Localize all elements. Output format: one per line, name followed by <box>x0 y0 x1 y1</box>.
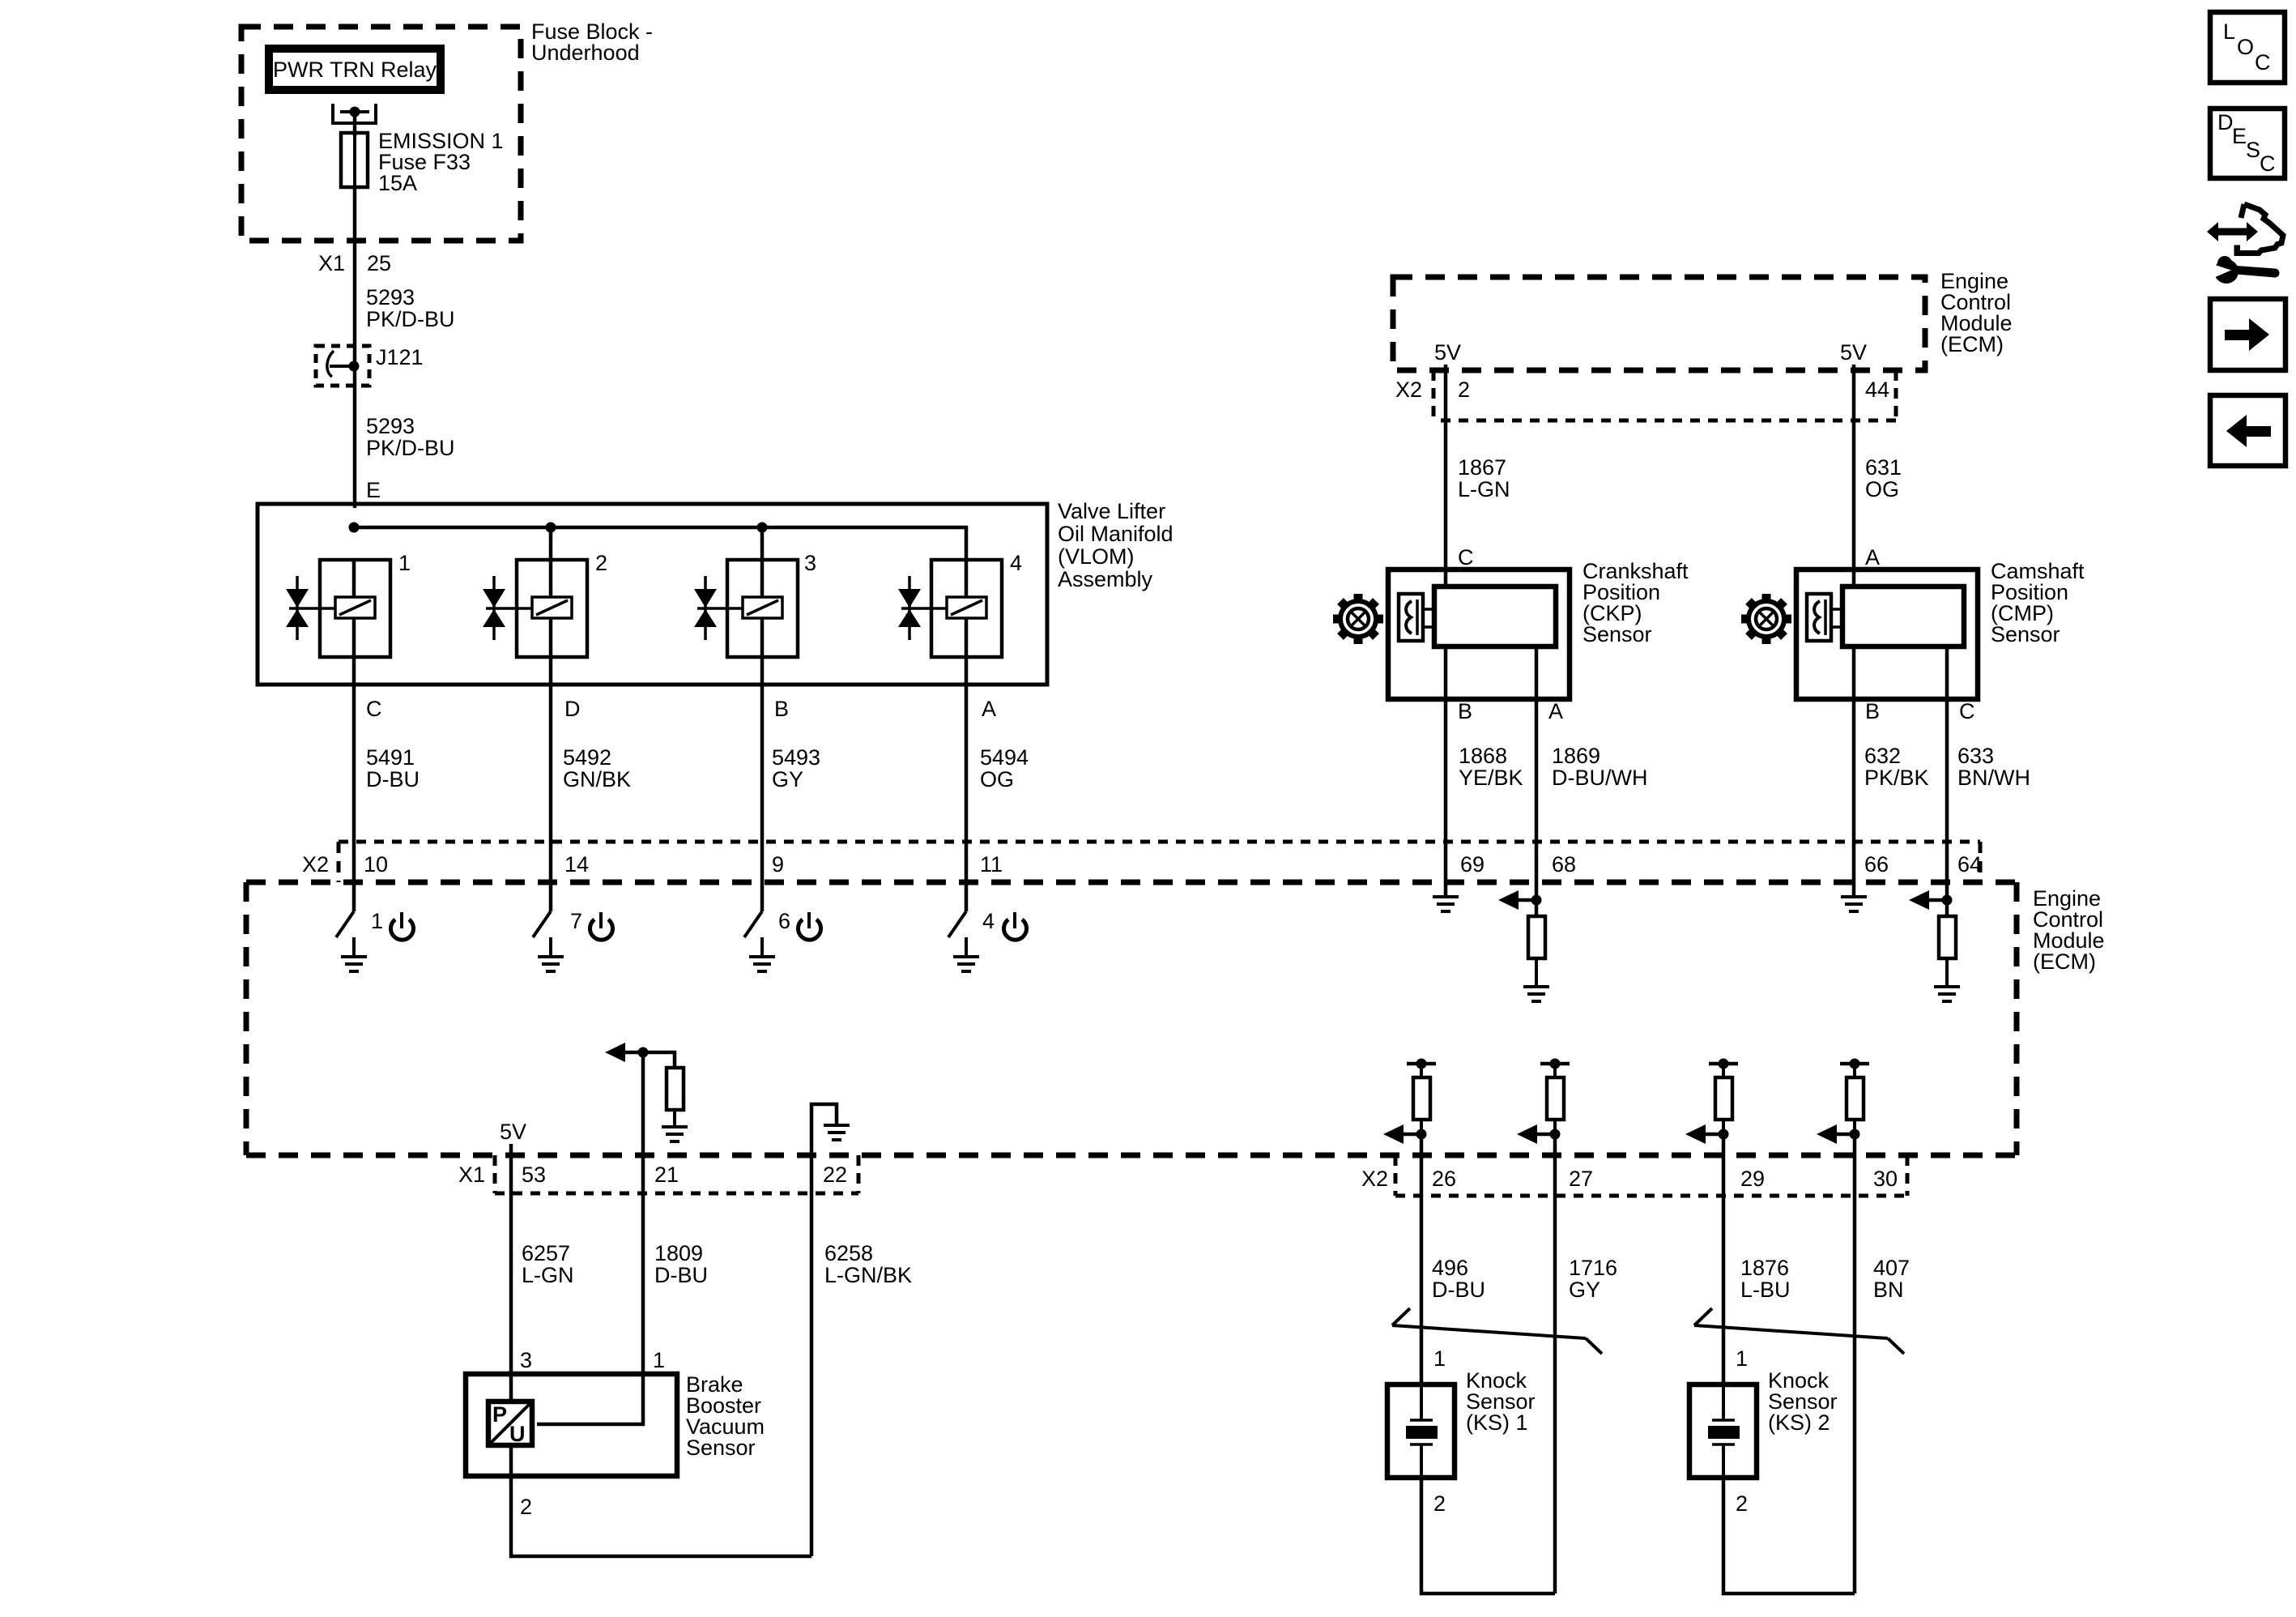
fuse block - underhood dashed box <box>241 27 521 241</box>
pin B of VLOM <box>774 697 789 721</box>
ECM top dashed box (sensor feed) <box>1393 277 1925 370</box>
svg-text:4: 4 <box>1010 551 1022 575</box>
label: Crankshaft Position (CKP) Sensor <box>1582 559 1689 646</box>
wire label 1869 D-BU/WH <box>1552 744 1647 790</box>
svg-text:YE/BK: YE/BK <box>1459 766 1523 790</box>
wire A to ECM pin 11 <box>965 685 969 885</box>
resistor (x=1920) <box>1547 1077 1564 1134</box>
svg-text:D-BU: D-BU <box>366 767 420 791</box>
svg-text:Sensor: Sensor <box>686 1436 756 1460</box>
knock sensor KS1 box <box>1387 1384 1455 1478</box>
svg-text:PK/D-BU: PK/D-BU <box>366 436 455 460</box>
svg-text:B: B <box>1458 699 1472 723</box>
ECM main dashed box <box>246 882 2017 1155</box>
ECM X1 connector row (brake booster) <box>495 1155 858 1193</box>
signal arrow (x=1920) <box>1517 1124 1555 1144</box>
wire D to ECM pin 14 <box>549 685 553 885</box>
wire relay to fuse <box>353 112 357 136</box>
ground (driver 7) <box>538 957 564 971</box>
svg-text:2: 2 <box>520 1495 532 1519</box>
signal arrow (x=2128) <box>1685 1124 1723 1144</box>
valve symbol 2 <box>483 576 505 640</box>
valve symbol 4 <box>898 576 921 640</box>
power icon 7 <box>590 912 613 940</box>
wire to connector (x=1920) <box>1553 1134 1557 1196</box>
wire bus drop 3 <box>760 527 765 560</box>
ground (driver 6) <box>749 957 775 971</box>
splice J121 <box>316 346 369 386</box>
svg-text:A: A <box>1865 545 1880 570</box>
pin X1 25 <box>318 251 391 275</box>
svg-text:OG: OG <box>980 767 1014 791</box>
ECM X2 connector row (top) <box>1433 370 1896 420</box>
pin A of VLOM <box>982 697 996 721</box>
svg-text:PWR TRN Relay: PWR TRN Relay <box>273 58 437 82</box>
solenoid 2 <box>486 560 587 685</box>
svg-text:2: 2 <box>595 551 607 575</box>
DESC legend box <box>2210 109 2285 178</box>
label: EMISSION 1 Fuse F33 15A <box>378 129 504 195</box>
svg-text:D-BU: D-BU <box>1432 1278 1485 1302</box>
svg-text:1876: 1876 <box>1740 1256 1789 1280</box>
ECM pin 68 internal arrow <box>1498 885 1536 910</box>
pin C label (CMP) <box>1959 699 1975 723</box>
svg-text:(VLOM): (VLOM) <box>1058 544 1135 569</box>
label: Engine Control Module (ECM) right side <box>2033 886 2105 974</box>
svg-text:21: 21 <box>654 1163 679 1187</box>
signal arrow (x=2290) <box>1817 1124 1855 1144</box>
junction dot at relay output <box>350 107 360 117</box>
label: solenoid 2 <box>595 551 607 575</box>
power icon 1 <box>391 912 414 940</box>
P/U transducer symbol <box>488 1402 532 1446</box>
signal arrow (x=1755) <box>1383 1124 1421 1144</box>
wire label 5491 D-BU <box>366 745 420 791</box>
ECM internal bias (pin net x=2128) <box>1709 1064 1738 1077</box>
svg-text:B: B <box>774 697 789 721</box>
svg-text:(ECM): (ECM) <box>1940 332 2004 356</box>
svg-text:BN: BN <box>1873 1278 1904 1302</box>
ground (pin 68 resistor) <box>1523 987 1549 1001</box>
svg-text:J121: J121 <box>376 345 424 369</box>
KS1 piezo element <box>1406 1384 1438 1478</box>
svg-text:GY: GY <box>772 767 803 791</box>
wire label 632 PK/BK <box>1864 744 1929 790</box>
svg-text:66: 66 <box>1864 852 1889 877</box>
pin 1 label <box>653 1348 665 1372</box>
svg-text:(ECM): (ECM) <box>2033 949 2096 974</box>
wire 496 pin26 to KS1 pin 1 <box>1420 1196 1424 1384</box>
KS2 piezo element <box>1708 1384 1740 1478</box>
driver switch 6 <box>744 885 762 957</box>
svg-text:A: A <box>982 697 996 721</box>
svg-text:1868: 1868 <box>1459 744 1507 768</box>
svg-text:O: O <box>2237 35 2254 59</box>
pin 2 label (KS1) <box>1433 1491 1446 1516</box>
pin D of VLOM <box>564 697 581 721</box>
junction dot top (x=1920) <box>1550 1059 1561 1069</box>
wire label 1809 D-BU <box>654 1241 708 1287</box>
svg-text:D-BU: D-BU <box>654 1263 708 1287</box>
CMP pickup element <box>1807 594 1842 641</box>
label: solenoid 4 <box>1010 551 1022 575</box>
svg-text:S: S <box>2246 138 2260 162</box>
pin 2 label (KS2) <box>1736 1491 1748 1516</box>
svg-text:PK/BK: PK/BK <box>1864 766 1929 790</box>
svg-text:1: 1 <box>653 1348 665 1372</box>
ECM internal bias (pin net x=1755) <box>1407 1064 1436 1077</box>
svg-text:496: 496 <box>1432 1256 1468 1280</box>
svg-text:C: C <box>1959 699 1975 723</box>
wire 1867 pin2 to CKP pin C <box>1444 365 1448 587</box>
svg-text:53: 53 <box>522 1163 546 1187</box>
pin 66 <box>1864 852 1889 877</box>
wire bus drop 2 <box>549 527 553 560</box>
reluctor gear icon (CKP) <box>1333 594 1383 644</box>
wire label 6257 L-GN <box>522 1241 574 1287</box>
junction dot top (x=2128) <box>1719 1059 1729 1069</box>
pin 53 <box>522 1163 546 1187</box>
junction dot top (x=2290) <box>1850 1059 1860 1069</box>
svg-text:5293: 5293 <box>366 285 415 309</box>
svg-text:44: 44 <box>1865 378 1889 402</box>
wire label 631 OG <box>1865 455 1902 501</box>
CMP sensor outer box <box>1796 570 1978 699</box>
pin 29 <box>1740 1167 1765 1191</box>
svg-text:5V: 5V <box>1434 340 1461 365</box>
valve symbol 1 <box>286 576 309 640</box>
CKP sensor inner body <box>1434 587 1556 646</box>
wire label 5493 GY <box>772 745 820 791</box>
junction dot pin21 net <box>638 1047 649 1058</box>
wire CKP pin B to ECM pin 69 <box>1444 646 1448 885</box>
svg-text:C: C <box>1458 545 1474 570</box>
solenoid 3 <box>697 560 798 685</box>
junction dot pin 64 <box>1942 895 1953 906</box>
relay PWR TRN Relay <box>269 49 441 90</box>
pin B label (CMP) <box>1865 699 1880 723</box>
svg-text:7: 7 <box>570 909 582 933</box>
wire label 1868 YE/BK <box>1459 744 1523 790</box>
ECM pin 64 internal arrow <box>1909 885 1947 910</box>
power icon 6 <box>799 912 821 940</box>
svg-text:1: 1 <box>1433 1346 1446 1371</box>
svg-text:5293: 5293 <box>366 414 415 438</box>
pin 64 <box>1957 852 1982 877</box>
svg-text:14: 14 <box>564 852 589 877</box>
svg-text:(KS) 1: (KS) 1 <box>1466 1410 1528 1435</box>
pin B label (CKP) <box>1458 699 1472 723</box>
svg-text:X2: X2 <box>302 852 329 877</box>
pin 21 <box>654 1163 679 1187</box>
svg-text:69: 69 <box>1460 852 1485 877</box>
svg-text:5491: 5491 <box>366 745 415 770</box>
svg-text:P: P <box>492 1402 507 1427</box>
ECM X2 connector row (left) <box>339 842 1980 882</box>
svg-text:Valve Lifter: Valve Lifter <box>1058 499 1165 523</box>
svg-text:B: B <box>1865 699 1880 723</box>
svg-text:PK/D-BU: PK/D-BU <box>366 307 455 331</box>
net 5V (CKP) <box>1434 340 1461 365</box>
twisted pair symbol KS2 <box>1694 1308 1904 1354</box>
svg-text:C: C <box>366 697 382 721</box>
svg-text:L-GN/BK: L-GN/BK <box>824 1263 912 1287</box>
pin 10 <box>364 852 388 877</box>
wire KS1 pin 2 loop to pin 27 <box>1421 1478 1555 1594</box>
pin 27 <box>1569 1167 1593 1191</box>
label: Brake Booster Vacuum Sensor <box>686 1372 765 1460</box>
svg-text:D-BU/WH: D-BU/WH <box>1552 766 1647 790</box>
svg-text:Assembly: Assembly <box>1058 567 1153 591</box>
wire sensor pin 2 loop to pin 22 <box>511 1445 811 1556</box>
wire fuse to X1 pin 25 <box>353 187 357 508</box>
svg-text:633: 633 <box>1957 744 1994 768</box>
pin 68 <box>1552 852 1576 877</box>
pin 9 <box>772 852 784 877</box>
ground (ECM pin 66) <box>1841 885 1867 911</box>
label: solenoid 1 <box>398 551 411 575</box>
junction dot arrow (x=1755) <box>1416 1129 1427 1140</box>
wire 631 pin44 to CMP pin A <box>1852 365 1856 587</box>
ECM X2 connector row (knock sensors) <box>1395 1155 1907 1196</box>
pin 30 <box>1873 1167 1898 1191</box>
svg-text:22: 22 <box>823 1163 847 1187</box>
pin 1 label (KS1) <box>1433 1346 1446 1371</box>
svg-text:68: 68 <box>1552 852 1576 877</box>
svg-text:Underhood: Underhood <box>531 41 640 65</box>
wire CMP pin C to ECM pin 64 <box>1945 646 1949 885</box>
wire CKP pin A to ECM pin 68 <box>1535 646 1539 885</box>
valve symbol 3 <box>694 576 717 640</box>
node E <box>366 478 381 502</box>
pin C of VLOM <box>366 697 382 721</box>
label: X2 connector knock <box>1361 1167 1388 1191</box>
svg-text:X2: X2 <box>1395 378 1422 402</box>
ECM internal bias (pin net x=2290) <box>1840 1064 1869 1077</box>
svg-text:GN/BK: GN/BK <box>563 767 631 791</box>
svg-text:Oil Manifold: Oil Manifold <box>1058 522 1174 546</box>
pin A label (CMP) <box>1865 545 1880 570</box>
svg-text:4: 4 <box>982 909 995 933</box>
svg-text:5V: 5V <box>500 1120 526 1144</box>
junction dot bus 2 <box>546 523 556 533</box>
net 5V (brake booster ref) <box>500 1120 526 1144</box>
svg-text:29: 29 <box>1740 1167 1765 1191</box>
wire 1716 pin27 down <box>1553 1196 1557 1594</box>
svg-text:1: 1 <box>1736 1346 1748 1371</box>
solenoid 4 <box>901 560 1002 685</box>
svg-text:5V: 5V <box>1840 340 1867 365</box>
svg-text:27: 27 <box>1569 1167 1593 1191</box>
label: Knock Sensor (KS) 1 <box>1466 1368 1536 1435</box>
wire to connector (x=2290) <box>1853 1134 1857 1196</box>
driver switch 1 <box>336 885 354 957</box>
junction dot arrow (x=2290) <box>1850 1129 1860 1140</box>
underhood service icon (car + arrows + wrench) <box>2207 204 2283 284</box>
svg-text:OG: OG <box>1865 477 1899 501</box>
svg-text:5493: 5493 <box>772 745 820 770</box>
wire to connector (x=2128) <box>1722 1134 1726 1196</box>
junction dot bus 3 <box>757 523 768 533</box>
label: X2 connector top <box>1395 378 1422 402</box>
LOC legend box <box>2210 12 2285 83</box>
wire CMP pin B to ECM pin 66 <box>1852 646 1856 885</box>
wire B to ECM pin 9 <box>760 685 765 885</box>
svg-text:2: 2 <box>1736 1491 1748 1516</box>
svg-text:25: 25 <box>367 251 391 275</box>
resistor (x=2290) <box>1847 1077 1864 1134</box>
svg-text:L-GN: L-GN <box>522 1263 574 1287</box>
svg-text:30: 30 <box>1873 1167 1898 1191</box>
svg-text:407: 407 <box>1873 1256 1910 1280</box>
pin 2 label <box>520 1495 532 1519</box>
forward arrow legend box <box>2210 299 2285 370</box>
wire KS2 pin 2 loop to pin 30 <box>1723 1478 1855 1594</box>
wire 5V to pin 53 <box>509 1144 513 1193</box>
svg-text:9: 9 <box>772 852 784 877</box>
svg-text:(KS) 2: (KS) 2 <box>1768 1410 1830 1435</box>
label: driver 7 <box>570 909 582 933</box>
svg-text:1869: 1869 <box>1552 744 1600 768</box>
wire 6257 pin53 to sensor pin 3 <box>509 1193 513 1402</box>
fuse F33 symbol <box>341 133 368 187</box>
ground (driver 4) <box>953 957 979 971</box>
wire label 5494 OG <box>980 745 1029 791</box>
svg-text:2: 2 <box>1458 378 1470 402</box>
resistor (x=2128) <box>1715 1077 1732 1134</box>
pin A label (CKP) <box>1548 699 1563 723</box>
pin 3 label <box>520 1348 532 1372</box>
pin 2 <box>1458 378 1470 402</box>
label: Camshaft Position (CMP) Sensor <box>1991 559 2085 646</box>
svg-text:632: 632 <box>1864 744 1901 768</box>
svg-text:6: 6 <box>778 909 790 933</box>
svg-text:X2: X2 <box>1361 1167 1388 1191</box>
svg-text:X1: X1 <box>318 251 345 275</box>
label: Valve Lifter Oil Manifold (VLOM) Assembly <box>1058 499 1174 591</box>
svg-text:L-BU: L-BU <box>1740 1278 1791 1302</box>
driver switch 7 <box>533 885 551 957</box>
svg-text:E: E <box>366 478 381 502</box>
resistor (pin 68) <box>1528 900 1545 987</box>
wire to connector (x=1755) <box>1420 1134 1424 1196</box>
svg-text:11: 11 <box>980 852 1003 877</box>
wire label 5293 PK/D-BU (lower) <box>366 414 455 460</box>
ECM internal wire to pin 21 with signal arrow <box>605 1043 675 1155</box>
junction dot top (x=1755) <box>1416 1059 1427 1069</box>
svg-text:15A: 15A <box>378 171 417 195</box>
wire C to ECM pin 10 <box>352 685 356 885</box>
CMP sensor inner body <box>1842 587 1964 646</box>
label: driver 4 <box>982 909 995 933</box>
svg-text:L-GN: L-GN <box>1458 477 1510 501</box>
svg-text:GY: GY <box>1569 1278 1600 1302</box>
pin 1 label (KS2) <box>1736 1346 1748 1371</box>
twisted pair symbol KS1 <box>1392 1308 1602 1354</box>
label: Fuse Block - Underhood <box>531 19 653 65</box>
svg-text:631: 631 <box>1865 455 1902 480</box>
svg-text:BN/WH: BN/WH <box>1957 766 2030 790</box>
ground (pin 22) <box>824 1125 850 1140</box>
ground (pin 21 resistor) <box>662 1127 688 1141</box>
svg-text:D: D <box>564 697 581 721</box>
wire 1809 pin21 to sensor pin 1 <box>537 1155 643 1424</box>
svg-text:3: 3 <box>804 551 816 575</box>
svg-text:C: C <box>2255 50 2271 75</box>
wire label 5492 GN/BK <box>563 745 631 791</box>
wire label 1716 GY <box>1569 1256 1617 1302</box>
svg-text:A: A <box>1548 699 1563 723</box>
svg-text:3: 3 <box>520 1348 532 1372</box>
junction dot bus 1 <box>349 523 360 533</box>
solenoid 1 <box>289 560 390 685</box>
pin 14 <box>564 852 589 877</box>
svg-text:X1: X1 <box>458 1163 485 1187</box>
wire label 1876 L-BU <box>1740 1256 1791 1302</box>
svg-text:U: U <box>509 1422 526 1446</box>
wire label 496 D-BU <box>1432 1256 1485 1302</box>
svg-text:1: 1 <box>398 551 411 575</box>
pin 44 <box>1865 378 1889 402</box>
svg-text:1867: 1867 <box>1458 455 1506 480</box>
pin 26 <box>1432 1167 1456 1191</box>
junction dot pin 68 <box>1531 895 1542 906</box>
svg-text:D: D <box>2217 110 2234 134</box>
label: solenoid 3 <box>804 551 816 575</box>
pin C label (CKP) <box>1458 545 1474 570</box>
wire 6258 pin22 down <box>810 1155 814 1556</box>
pin 22 <box>823 1163 847 1187</box>
label: X2 connector <box>302 852 329 877</box>
wire label 407 BN <box>1873 1256 1910 1302</box>
back arrow legend box <box>2210 395 2285 466</box>
resistor (pin 64) <box>1939 900 1956 987</box>
bus wire inside VLOM <box>354 527 966 560</box>
resistor (pin 21 pull) <box>667 1068 684 1127</box>
svg-text:10: 10 <box>364 852 388 877</box>
wire 407 pin30 down <box>1853 1196 1857 1594</box>
label: J121 <box>376 345 424 369</box>
pin 11 <box>980 852 1003 877</box>
wire label 6258 L-GN/BK <box>824 1241 912 1287</box>
pin 69 <box>1460 852 1485 877</box>
driver switch 4 <box>948 885 966 957</box>
svg-text:L: L <box>2223 19 2235 44</box>
svg-text:E: E <box>2232 124 2247 148</box>
wire 1876 pin29 to KS2 pin 1 <box>1722 1196 1726 1384</box>
svg-text:1809: 1809 <box>654 1241 703 1265</box>
wire label 1867 L-GN <box>1458 455 1510 501</box>
wire label 633 BN/WH <box>1957 744 2030 790</box>
svg-text:2: 2 <box>1433 1491 1446 1516</box>
resistor (x=1755) <box>1413 1077 1430 1134</box>
brake booster vacuum sensor box <box>466 1374 677 1476</box>
CKP pickup element <box>1399 594 1434 641</box>
junction dot arrow (x=2128) <box>1719 1129 1729 1140</box>
relay output bracket contact <box>333 104 376 123</box>
power icon 4 <box>1004 912 1027 940</box>
svg-text:1: 1 <box>371 909 383 933</box>
svg-text:5494: 5494 <box>980 745 1029 770</box>
ground (ECM pin 69) <box>1433 885 1459 911</box>
svg-text:6258: 6258 <box>824 1241 873 1265</box>
svg-text:1716: 1716 <box>1569 1256 1617 1280</box>
svg-text:Sensor: Sensor <box>1582 622 1652 646</box>
junction dot arrow (x=1920) <box>1550 1129 1561 1140</box>
svg-text:Sensor: Sensor <box>1991 622 2060 646</box>
svg-text:C: C <box>2260 151 2276 176</box>
wire label 5293 PK/D-BU (upper) <box>366 285 455 331</box>
